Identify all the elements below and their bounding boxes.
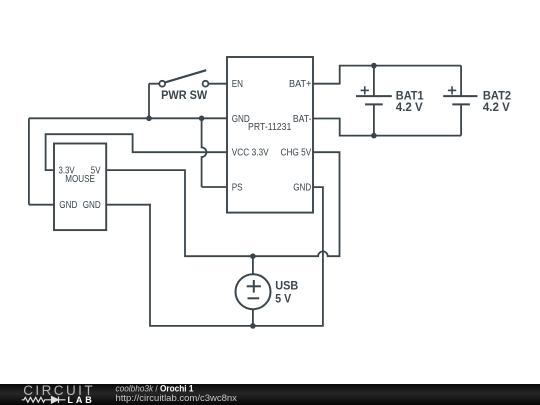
battery BAT2: [443, 86, 477, 104]
svg-text:CHG 5V: CHG 5V: [281, 148, 312, 159]
switch SW1 PWR SW: [159, 70, 208, 86]
junction: BAT1 bottom rail: [371, 133, 377, 139]
svg-text:GND: GND: [83, 200, 101, 211]
junction: switch pole / GND bus: [146, 116, 152, 122]
svg-text:BAT+: BAT+: [289, 79, 312, 90]
footer bar: [0, 384, 540, 405]
svg-text:VCC 3.3V: VCC 3.3V: [232, 148, 269, 159]
svg-text:4.2 V: 4.2 V: [483, 100, 510, 114]
IC U2 MOUSE block: [54, 144, 106, 231]
svg-text:GND: GND: [293, 183, 311, 194]
junction: USB - / GND wire: [250, 323, 256, 329]
wire: BAT1 top lead: [373, 66, 375, 97]
svg-text:4.2 V: 4.2 V: [396, 100, 423, 114]
svg-text:PRT-11231: PRT-11231: [248, 122, 292, 133]
wire: USB - stub: [252, 309, 254, 326]
wire: switch pole down to GND bus: [149, 83, 162, 85]
IC U1 PRT-11231 block: [227, 57, 313, 213]
wire: to PS pin: [202, 186, 227, 188]
wire: switch to EN pin: [206, 83, 228, 85]
svg-text:PS: PS: [232, 183, 243, 194]
wire: BAT- to battery bottom rail: [313, 119, 461, 136]
junction: PS branch / GND bus: [199, 116, 205, 122]
svg-text:http://circuitlab.com/c3wc8nx: http://circuitlab.com/c3wc8nx: [116, 393, 238, 404]
svg-text:GND: GND: [232, 114, 250, 125]
wire: GND horizontal bus: [29, 117, 227, 119]
svg-text:EN: EN: [232, 79, 243, 90]
battery BAT1: [356, 86, 392, 104]
wire: BAT2 top lead: [460, 66, 462, 97]
voltage source V1 USB: [236, 274, 271, 309]
wire: BAT2 bottom lead: [460, 104, 462, 135]
svg-text:BAT-: BAT-: [293, 114, 312, 125]
wire: MOUSE right GND down along bottom to PRT GND: [106, 187, 323, 326]
wire: BAT1 bottom lead: [373, 104, 375, 135]
wire: [148, 84, 150, 119]
svg-text:GND: GND: [59, 200, 77, 211]
wire: MOUSE 3.3V to VCC (with hop over PS branch): [46, 134, 227, 170]
svg-text:PWR SW: PWR SW: [161, 88, 208, 102]
wire: BAT+ to battery top rail: [313, 66, 461, 84]
svg-text:MOUSE: MOUSE: [65, 174, 95, 185]
wire: left GND drop: [28, 118, 30, 204]
wire: MOUSE 5V down and across to CHG 5V (hop over GND drop): [106, 152, 340, 256]
svg-text:LAB: LAB: [68, 395, 95, 405]
wire: USB + stub: [252, 256, 254, 274]
svg-text:5 V: 5 V: [275, 292, 291, 306]
logo resistor + diode: [22, 397, 66, 403]
junction: BAT1 top rail: [371, 63, 377, 69]
junction: USB + / 5V wire: [250, 253, 256, 259]
wire: to MOUSE left GND: [29, 204, 54, 206]
wire: PS branch down: [202, 118, 207, 187]
